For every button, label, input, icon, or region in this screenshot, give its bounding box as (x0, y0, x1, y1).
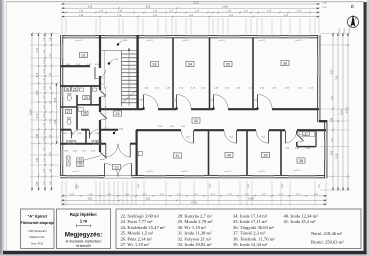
svg-text:Megjegyzés:: Megjegyzés: (65, 231, 102, 238)
entrance opening bottom wall (104, 175, 132, 178)
svg-text:1,11: 1,11 (43, 78, 45, 82)
svg-text:12,60: 12,60 (341, 108, 343, 114)
svg-text:1,11: 1,11 (43, 50, 45, 54)
svg-text:1,43: 1,43 (50, 86, 52, 90)
wall sinkrooms divider x86 (85, 130, 87, 144)
svg-text:0,30: 0,30 (248, 184, 250, 188)
scan edge bottom dark strip (3, 251, 367, 255)
svg-text:0,30: 0,30 (344, 29, 346, 33)
room label 37 (303, 131, 309, 135)
svg-text:25: 25 (73, 88, 77, 92)
svg-text:12,60: 12,60 (30, 108, 32, 114)
svg-text:1,35: 1,35 (37, 181, 39, 186)
wc toilets (67, 95, 71, 100)
svg-text:1,40: 1,40 (37, 133, 39, 138)
svg-text:38: 38 (299, 159, 303, 163)
svg-text:5,05: 5,05 (88, 7, 93, 9)
left dim col total 12,60 (31, 34, 33, 191)
svg-text:pm3,15: pm3,15 (219, 40, 227, 42)
door room 38 (285, 130, 287, 143)
window bottom wall 218-240 (218, 175, 240, 177)
left dim col 2 (38, 34, 40, 191)
wall wc cluster y104.8 (77, 104, 101, 106)
right dim col 4 (347, 34, 349, 191)
svg-text:pm3,15: pm3,15 (76, 40, 84, 42)
svg-text:0,90: 0,90 (331, 96, 333, 100)
svg-text:34: 34 (188, 63, 192, 67)
svg-text:1,41: 1,41 (50, 181, 52, 185)
svg-text:5,05: 5,05 (146, 7, 151, 9)
partition rooms 33/34 (172, 38, 174, 108)
room label 22 (113, 164, 121, 169)
right extension lines (320, 33, 350, 35)
door room 35 (213, 95, 215, 110)
svg-text:7100 Szekszárd: 7100 Szekszárd (28, 229, 47, 233)
svg-text:+0,45: +0,45 (122, 40, 128, 42)
svg-text:28: 28 (83, 112, 87, 116)
svg-text:+0,00: +0,00 (118, 128, 124, 130)
svg-text:14,98: 14,98 (222, 7, 228, 9)
svg-text:értendő!: értendő! (76, 243, 91, 248)
wall corridor bottom (136, 129, 181, 131)
svg-text:0,30: 0,30 (282, 184, 284, 188)
partition rooms 35/36 (252, 38, 254, 108)
svg-text:1,11: 1,11 (43, 158, 45, 162)
right dim col 2 (337, 34, 339, 191)
left dim col 4 (51, 34, 53, 191)
svg-text:2,05: 2,05 (55, 97, 57, 102)
scan edge left grey strip (0, 0, 6, 256)
svg-text:5,05: 5,05 (88, 199, 93, 201)
door below room31 (94, 67, 96, 79)
svg-text:32: 32 (194, 119, 198, 123)
svg-text:39: 39 (263, 153, 267, 157)
room label 31 (80, 52, 88, 57)
svg-text:1,10: 1,10 (43, 96, 45, 100)
exterior wall left (60, 35, 63, 178)
svg-text:6,15: 6,15 (336, 153, 338, 158)
svg-text:1,41: 1,41 (50, 54, 52, 58)
top dimension row 3 (62, 11, 319, 13)
svg-text:210: 210 (175, 99, 177, 102)
window top wall 288-310 (288, 35, 310, 37)
svg-text:1,46: 1,46 (104, 95, 106, 99)
svg-text:1,11: 1,11 (43, 105, 45, 109)
svg-text:210: 210 (142, 99, 144, 102)
scan edge right dark strip (364, 2, 367, 252)
room label 32 (192, 118, 200, 123)
window left wall 150-165 (60, 150, 62, 165)
stair landing line (102, 50, 137, 52)
window top wall 258-280 (258, 35, 280, 37)
svg-text:0,60: 0,60 (63, 133, 67, 135)
konyha counter (79, 108, 84, 112)
entrance outer doors (104, 163, 106, 176)
wall y129.5 left (60, 129, 71, 131)
svg-text:41: 41 (175, 154, 179, 158)
svg-text:1,10: 1,10 (43, 37, 45, 41)
svg-text:0,60: 0,60 (88, 133, 92, 135)
interior vertical dim kozlekedo (105, 88, 107, 128)
svg-text:1,40: 1,40 (50, 101, 52, 105)
svg-text:4,55: 4,55 (331, 150, 333, 155)
room label 39 (262, 152, 270, 157)
svg-text:0,60: 0,60 (70, 133, 74, 135)
svg-text:40: 40 (227, 153, 231, 157)
left dim col 3 (44, 34, 46, 191)
room label 35 (224, 61, 232, 66)
svg-text:1,30: 1,30 (331, 138, 333, 142)
closet 37 shelves (299, 132, 305, 137)
exterior wall right upper (317, 35, 320, 122)
window bottom wall 288-316 (288, 175, 316, 177)
svg-text:pm3,15: pm3,15 (225, 171, 233, 173)
svg-text:2,76: 2,76 (37, 113, 39, 118)
svg-text:1,12: 1,12 (43, 86, 45, 90)
svg-text:Földszinti alaprajz: Földszinti alaprajz (21, 221, 54, 225)
room label 30 (64, 87, 70, 91)
wall bottomband left (136, 130, 138, 176)
svg-text:35: 35 (226, 63, 230, 67)
top dimension row 1 (total 27,30) (62, 3, 319, 5)
svg-text:32. Folyosó 21 m²: 32. Folyosó 21 m² (178, 236, 212, 241)
window top wall 186-208 (186, 35, 208, 37)
exterior wall right lower (324, 121, 327, 179)
left extension lines (30, 33, 59, 35)
svg-text:26: 26 (78, 163, 82, 167)
window right lower wall (325, 140, 327, 160)
north arrow needle (351, 14, 356, 27)
legend scale box (56, 209, 110, 249)
svg-text:0,30: 0,30 (210, 184, 212, 188)
window top wall 218-240 (218, 35, 240, 37)
svg-text:0,60: 0,60 (78, 133, 82, 135)
partition rooms 39/38 (280, 131, 282, 176)
svg-text:1,12: 1,12 (43, 138, 45, 142)
svg-text:33: 33 (152, 63, 156, 67)
svg-text:30: 30 (66, 88, 70, 92)
svg-text:hrsz: 4723: hrsz: 4723 (31, 242, 44, 246)
wall room31 bottom (60, 65, 90, 67)
legend title box (21, 209, 54, 249)
sink small upper (80, 88, 84, 91)
door closet 37 (297, 134, 304, 140)
svg-text:3,30: 3,30 (37, 157, 39, 162)
bottom dimension row C (total) (62, 203, 326, 205)
window left wall 88-97 (60, 88, 62, 97)
top dimension row 2 (62, 7, 319, 9)
door room 39 (267, 130, 269, 143)
door room 40 (235, 130, 237, 143)
svg-text:Palánki út 61.: Palánki út 61. (29, 235, 45, 239)
door room 34 (176, 95, 178, 110)
svg-text:pm3,15: pm3,15 (73, 171, 81, 173)
stair side walkway line (103, 51, 105, 89)
svg-text:6,60: 6,60 (331, 69, 333, 74)
room label 23 (77, 158, 83, 162)
door room 33 (143, 95, 145, 110)
room label 36 (281, 60, 289, 65)
svg-text:pm3,15: pm3,15 (259, 171, 267, 173)
svg-text:1,95: 1,95 (331, 117, 333, 122)
room label 29 (83, 95, 89, 99)
door sinkroom left (70, 130, 72, 139)
svg-text:pm3,15: pm3,15 (182, 171, 190, 173)
svg-text:210: 210 (232, 136, 234, 139)
svg-text:Rajz léptéke:: Rajz léptéke: (70, 212, 98, 217)
room label 28 (82, 111, 88, 115)
room label 34 (186, 61, 194, 66)
room label 25 (72, 87, 78, 91)
svg-text:1,10: 1,10 (43, 181, 45, 185)
svg-text:pm3,15: pm3,15 (183, 40, 191, 42)
window bottom wall 144-166 (144, 175, 166, 177)
svg-text:+0,24: +0,24 (113, 59, 119, 61)
right dim col 1 (332, 34, 334, 191)
door to room 29 (100, 90, 106, 96)
svg-text:210: 210 (256, 99, 258, 102)
right dim col 3 (342, 34, 344, 191)
exterior wall jog (319, 120, 327, 122)
svg-text:14,98: 14,98 (248, 199, 254, 201)
svg-text:31: 31 (81, 54, 85, 58)
room label 33 (151, 61, 159, 66)
svg-text:5,05: 5,05 (146, 199, 151, 201)
entrance inner doors (105, 144, 107, 158)
svg-text:1,40: 1,40 (50, 169, 52, 173)
svg-text:1,40: 1,40 (50, 37, 52, 41)
top extension lines (61, 18, 63, 34)
wall wc stalls y107 (60, 106, 77, 108)
wall small x91 (90, 86, 92, 105)
room label 38 (297, 158, 305, 163)
room label 27 (65, 109, 71, 113)
stairs in stairwell (121, 53, 136, 55)
window right upper wall (318, 55, 320, 75)
svg-text:210: 210 (189, 136, 191, 139)
door room 36 (257, 95, 259, 110)
svg-text:1,85: 1,85 (37, 90, 39, 95)
svg-text:210: 210 (264, 136, 266, 139)
legend room list box (116, 209, 361, 249)
room label 26 (77, 162, 83, 166)
svg-text:2,05: 2,05 (104, 116, 106, 120)
wall szelfogo top y143.5 (60, 143, 106, 145)
svg-text:1,10: 1,10 (43, 69, 45, 73)
partition rooms 40/39 (246, 131, 248, 176)
wall vertical x100 (99, 35, 101, 68)
svg-text:É: É (351, 3, 354, 9)
wall stairwell right (136, 35, 138, 109)
page frame top line (6, 1, 364, 3)
svg-text:pm3,15: pm3,15 (259, 40, 267, 42)
svg-text:1,10: 1,10 (43, 147, 45, 151)
svg-text:1,12: 1,12 (43, 114, 45, 118)
svg-text:36: 36 (283, 62, 287, 66)
partition rooms 34/35 (209, 38, 211, 108)
top dimension row 4 (62, 16, 319, 18)
svg-text:24: 24 (115, 112, 119, 116)
svg-text:0,30: 0,30 (349, 29, 351, 33)
level marker +0,45 (117, 43, 119, 45)
svg-text:27,30: 27,30 (193, 2, 199, 4)
exterior wall bottom (60, 175, 327, 178)
svg-text:1,11: 1,11 (43, 131, 45, 135)
svg-text:1,12: 1,12 (43, 60, 45, 64)
svg-text:210: 210 (78, 185, 80, 188)
level marker +0,24 (108, 62, 110, 64)
window top wall 144-166 (144, 35, 166, 37)
bottom dimension row A (62, 195, 326, 197)
door to room 28 (100, 112, 107, 118)
svg-text:pm3,15: pm3,15 (296, 40, 304, 42)
svg-text:1,10: 1,10 (43, 123, 45, 127)
door porta (100, 152, 107, 158)
sink row (67, 141, 71, 145)
svg-text:1,41: 1,41 (50, 119, 52, 123)
wall corridor top (99, 108, 143, 110)
exterior wall top (60, 35, 320, 38)
window bottom wall 66-98 (66, 175, 98, 177)
svg-text:7,90: 7,90 (336, 75, 338, 80)
svg-text:27,30: 27,30 (191, 203, 197, 205)
svg-text:29: 29 (84, 96, 88, 100)
room label 40 (225, 152, 233, 157)
window bottom wall 252-274 (252, 175, 274, 177)
svg-text:"A" Épület: "A" Épület (27, 213, 47, 218)
door room 41 (192, 130, 194, 143)
svg-text:210: 210 (212, 99, 214, 102)
level marker +0,00 (113, 132, 115, 134)
closet 37 walls (296, 131, 298, 134)
svg-text:13,10: 13,10 (346, 106, 348, 112)
bottom dimension row B (62, 199, 326, 201)
window top wall 106-134 (106, 35, 134, 37)
svg-text:pm3,15: pm3,15 (147, 171, 155, 173)
north arrow circle (347, 16, 358, 27)
label leader line porta (83, 156, 101, 161)
svg-text:0,30: 0,30 (339, 29, 341, 33)
radiator room41 west (138, 151, 142, 155)
svg-text:22: 22 (114, 165, 118, 169)
svg-text:0,60: 0,60 (96, 133, 100, 135)
wall wc cluster y86 (60, 85, 101, 87)
room label 24 (114, 111, 122, 116)
svg-text:pm3,15: pm3,15 (294, 170, 302, 172)
partition rooms 41/40 (208, 131, 210, 176)
wall wc column x77 (76, 86, 78, 88)
window top wall 66-96 (66, 35, 96, 37)
svg-text:3,17: 3,17 (37, 47, 39, 52)
svg-text:pm3,15: pm3,15 (147, 40, 155, 42)
svg-text:1 m: 1 m (80, 219, 88, 224)
svg-text:1,43: 1,43 (50, 152, 52, 156)
svg-text:1,42: 1,42 (50, 135, 52, 139)
svg-text:0,30: 0,30 (319, 184, 321, 188)
svg-text:37: 37 (304, 132, 308, 136)
porta desk (67, 156, 71, 166)
bottom extension lines (61, 181, 63, 206)
svg-text:27: 27 (67, 110, 71, 114)
left dim col 5 short (56, 84, 58, 144)
svg-text:1,76: 1,76 (37, 72, 39, 77)
svg-text:1,12: 1,12 (43, 169, 45, 173)
svg-text:0,30: 0,30 (138, 184, 140, 188)
window bottom wall 184-204 (184, 175, 204, 177)
page frame left line (5, 2, 7, 251)
room label 41 (174, 153, 182, 158)
window left wall 45-58 (60, 45, 62, 58)
scale bar (77, 225, 91, 227)
door sinkroom right (88, 130, 90, 139)
